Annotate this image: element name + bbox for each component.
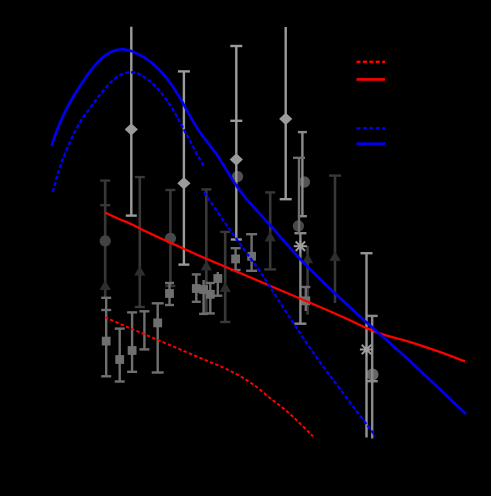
blue solid curve bbox=[52, 49, 467, 414]
asterisk markers bbox=[294, 240, 307, 253]
medium error bars bbox=[367, 316, 378, 439]
dark error bars bbox=[100, 181, 110, 297]
red dashed curve bbox=[105, 317, 313, 436]
light error bars bbox=[126, 27, 137, 216]
red solid curve bbox=[105, 213, 465, 362]
blue dashed bump curve bbox=[53, 72, 204, 192]
circle markers bbox=[100, 235, 111, 246]
diamond markers bbox=[125, 123, 138, 135]
square markers bbox=[102, 337, 111, 346]
legend bbox=[357, 61, 386, 63]
triangle markers bbox=[100, 280, 111, 290]
blue dashed straight curve bbox=[204, 192, 376, 436]
